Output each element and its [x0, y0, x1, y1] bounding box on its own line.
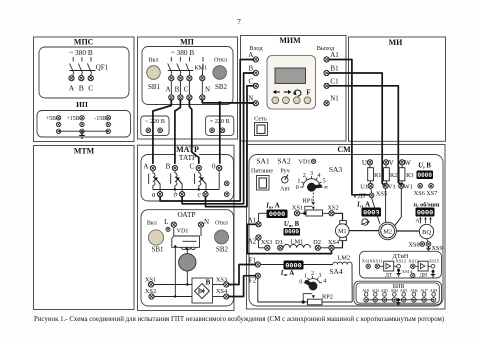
svg-text:0: 0: [212, 162, 216, 170]
svg-text:+15В: +15В: [67, 116, 80, 122]
svg-text:SA1: SA1: [256, 157, 270, 166]
svg-text:АЦ2: АЦ2: [372, 289, 379, 293]
svg-text:2: 2: [303, 172, 306, 179]
svg-text:-15В: -15В: [94, 116, 106, 122]
svg-text:3: 3: [310, 170, 313, 177]
svg-text:R3: R3: [406, 172, 413, 179]
svg-text:МИМ: МИМ: [279, 36, 301, 45]
svg-text:XS7: XS7: [426, 190, 437, 197]
svg-text:АЦ5: АЦ5: [400, 289, 407, 293]
svg-text:АЦ1: АЦ1: [362, 289, 369, 293]
svg-text:XS14: XS14: [402, 269, 413, 274]
svg-text:Iв, A: Iв, A: [265, 202, 279, 209]
svg-text:7: 7: [237, 17, 241, 26]
svg-text:3: 3: [319, 272, 322, 279]
svg-text:1: 1: [297, 177, 300, 184]
svg-text:Вкл: Вкл: [147, 221, 157, 227]
svg-text:QF1: QF1: [96, 64, 109, 72]
svg-text:Руч: Руч: [280, 168, 289, 174]
svg-text:C: C: [248, 77, 253, 85]
svg-text:A: A: [165, 86, 170, 94]
svg-text:W: W: [404, 159, 411, 167]
svg-text:SA3: SA3: [329, 165, 343, 174]
svg-text:RP2: RP2: [322, 294, 333, 301]
svg-text:~ 220 В: ~ 220 В: [145, 118, 165, 125]
svg-text:МТМ: МТМ: [74, 147, 95, 156]
svg-text:LM2: LM2: [337, 254, 350, 261]
svg-text:Сеть: Сеть: [254, 116, 267, 123]
svg-text:A: A: [143, 162, 148, 170]
svg-text:F: F: [306, 89, 310, 96]
svg-text:МПС: МПС: [74, 38, 94, 47]
svg-text:МП: МП: [180, 38, 195, 47]
svg-text:B: B: [248, 65, 253, 73]
svg-text:SB2: SB2: [215, 83, 228, 91]
svg-text:ДТ: ДТ: [385, 272, 393, 278]
svg-text:U1: U1: [360, 183, 368, 190]
svg-text:Рисунок 1.- Схема соединений д: Рисунок 1.- Схема соединений для испытан…: [34, 316, 444, 323]
svg-text:VD1: VD1: [298, 159, 310, 166]
svg-text:∞: ∞: [324, 184, 329, 191]
svg-text:D1: D1: [275, 239, 283, 246]
svg-text:SB1: SB1: [151, 246, 164, 254]
svg-text:XS15: XS15: [429, 258, 440, 263]
svg-text:0: 0: [299, 279, 302, 286]
svg-text:U: U: [362, 159, 367, 167]
svg-text:V1: V1: [388, 183, 396, 190]
svg-text:XS6: XS6: [414, 190, 425, 197]
svg-text:C1: C1: [330, 77, 339, 85]
svg-text:Питание: Питание: [251, 168, 273, 174]
svg-text:Iс, A: Iс, A: [356, 201, 370, 208]
svg-text:АЦ7: АЦ7: [420, 289, 427, 293]
svg-text:Откл: Откл: [215, 221, 228, 227]
svg-text:B: B: [166, 162, 171, 170]
svg-text:КМ1: КМ1: [194, 65, 207, 72]
svg-text:МИ: МИ: [389, 38, 404, 47]
svg-text:Авт: Авт: [280, 187, 290, 193]
svg-text:N: N: [205, 86, 210, 94]
svg-text:A1: A1: [330, 51, 339, 59]
svg-text:Iя, A: Iя, A: [280, 270, 294, 277]
svg-text:СМ: СМ: [337, 145, 351, 154]
svg-text:SB2: SB2: [216, 246, 229, 254]
svg-text:C: C: [189, 162, 194, 170]
svg-text:B1: B1: [330, 65, 339, 73]
svg-text:C: C: [88, 84, 93, 93]
svg-text:ОАТР: ОАТР: [177, 210, 195, 219]
svg-text:B: B: [206, 278, 211, 286]
svg-text:XS12: XS12: [396, 258, 407, 263]
svg-text:М2: М2: [383, 228, 392, 235]
svg-text:ИП: ИП: [76, 100, 88, 109]
svg-text:V: V: [389, 159, 394, 167]
svg-text:0000: 0000: [285, 229, 300, 236]
svg-text:ДН: ДН: [420, 272, 428, 278]
svg-text:SA2: SA2: [277, 157, 291, 166]
svg-text:1: 1: [304, 272, 307, 279]
svg-text:b: b: [174, 191, 178, 199]
svg-text:n, об/мин: n, об/мин: [414, 201, 440, 208]
svg-text:Вкл: Вкл: [149, 58, 159, 64]
svg-text:Откл: Откл: [214, 58, 227, 64]
svg-text:АЦ6: АЦ6: [410, 289, 417, 293]
svg-text:АЦ8: АЦ8: [430, 289, 437, 293]
svg-text:0000: 0000: [417, 210, 433, 218]
svg-text:XS2: XS2: [327, 204, 338, 211]
svg-text:N: N: [248, 95, 253, 103]
svg-text:RP1: RP1: [302, 197, 313, 204]
svg-text:0: 0: [296, 184, 299, 191]
svg-text:к ДТ: к ДТ: [354, 193, 367, 200]
svg-text:ВQ: ВQ: [422, 229, 431, 236]
svg-text:N1: N1: [330, 95, 339, 103]
svg-text:SB1: SB1: [148, 83, 161, 91]
svg-text:A2: A2: [248, 237, 257, 245]
svg-text:АЦ4: АЦ4: [391, 289, 398, 293]
svg-text:C: C: [184, 86, 189, 94]
svg-text:4: 4: [323, 278, 326, 285]
svg-text:~ 380 В: ~ 380 В: [69, 48, 93, 57]
svg-text:A: A: [69, 84, 75, 93]
svg-text:a: a: [152, 191, 156, 199]
svg-text:L: L: [164, 218, 168, 226]
svg-text:XS4: XS4: [328, 239, 340, 246]
svg-text:R2: R2: [390, 172, 397, 179]
svg-text:2: 2: [311, 270, 314, 277]
svg-text:B: B: [175, 86, 180, 94]
svg-text:XS3: XS3: [261, 239, 272, 246]
svg-text:М1: М1: [338, 229, 346, 235]
svg-text:XS8: XS8: [408, 242, 419, 249]
svg-text:XS9: XS9: [431, 245, 442, 252]
svg-text:VD1: VD1: [176, 228, 188, 235]
svg-text:4: 4: [317, 172, 320, 179]
svg-text:A1: A1: [248, 217, 257, 225]
svg-text:A: A: [248, 51, 253, 59]
svg-text:D2: D2: [313, 239, 321, 246]
svg-text:SA4: SA4: [329, 267, 343, 276]
svg-text:Uв, B: Uв, B: [284, 221, 300, 228]
svg-text:+5В: +5В: [46, 116, 56, 122]
svg-text:W1: W1: [404, 183, 413, 190]
svg-text:0000: 0000: [418, 172, 433, 179]
svg-text:XS11: XS11: [372, 258, 383, 263]
svg-text:0000: 0000: [269, 211, 285, 219]
svg-text:0000: 0000: [285, 263, 301, 271]
svg-text:N: N: [204, 218, 209, 226]
svg-text:U, В: U, В: [418, 162, 431, 169]
svg-text:R1: R1: [374, 172, 381, 179]
svg-text:B: B: [79, 84, 84, 93]
svg-text:АЦ3: АЦ3: [381, 289, 388, 293]
svg-text:~ 380 В: ~ 380 В: [171, 48, 195, 57]
